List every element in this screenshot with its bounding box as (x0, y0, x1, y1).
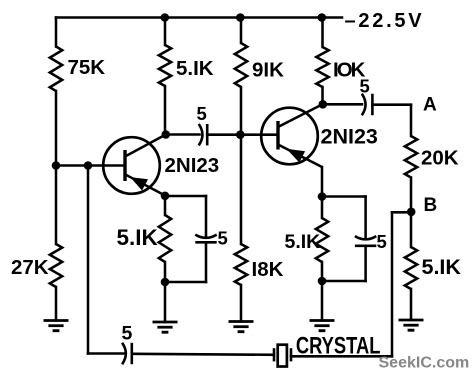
svg-text:–22.5V: –22.5V (345, 10, 425, 32)
svg-text:27K: 27K (11, 256, 49, 279)
svg-text:A: A (423, 95, 437, 116)
svg-text:75K: 75K (68, 56, 106, 79)
svg-text:I8K: I8K (252, 258, 284, 281)
svg-text:5.IK: 5.IK (285, 231, 321, 253)
svg-text:2NI23: 2NI23 (321, 124, 378, 148)
svg-text:5: 5 (218, 228, 228, 249)
svg-text:5.IK: 5.IK (176, 57, 214, 80)
svg-text:2NI23: 2NI23 (165, 154, 220, 177)
svg-text:9IK: 9IK (252, 59, 284, 82)
svg-text:5: 5 (377, 231, 387, 252)
svg-text:SeekIC.com: SeekIC.com (379, 355, 470, 372)
svg-text:20K: 20K (421, 147, 459, 170)
svg-text:5.IK: 5.IK (422, 255, 462, 279)
svg-text:5: 5 (122, 323, 133, 345)
svg-text:B: B (424, 195, 438, 216)
svg-text:5.IK: 5.IK (117, 225, 159, 250)
svg-text:5: 5 (360, 76, 370, 97)
svg-text:CRYSTAL: CRYSTAL (296, 332, 381, 359)
svg-text:5: 5 (197, 103, 207, 124)
